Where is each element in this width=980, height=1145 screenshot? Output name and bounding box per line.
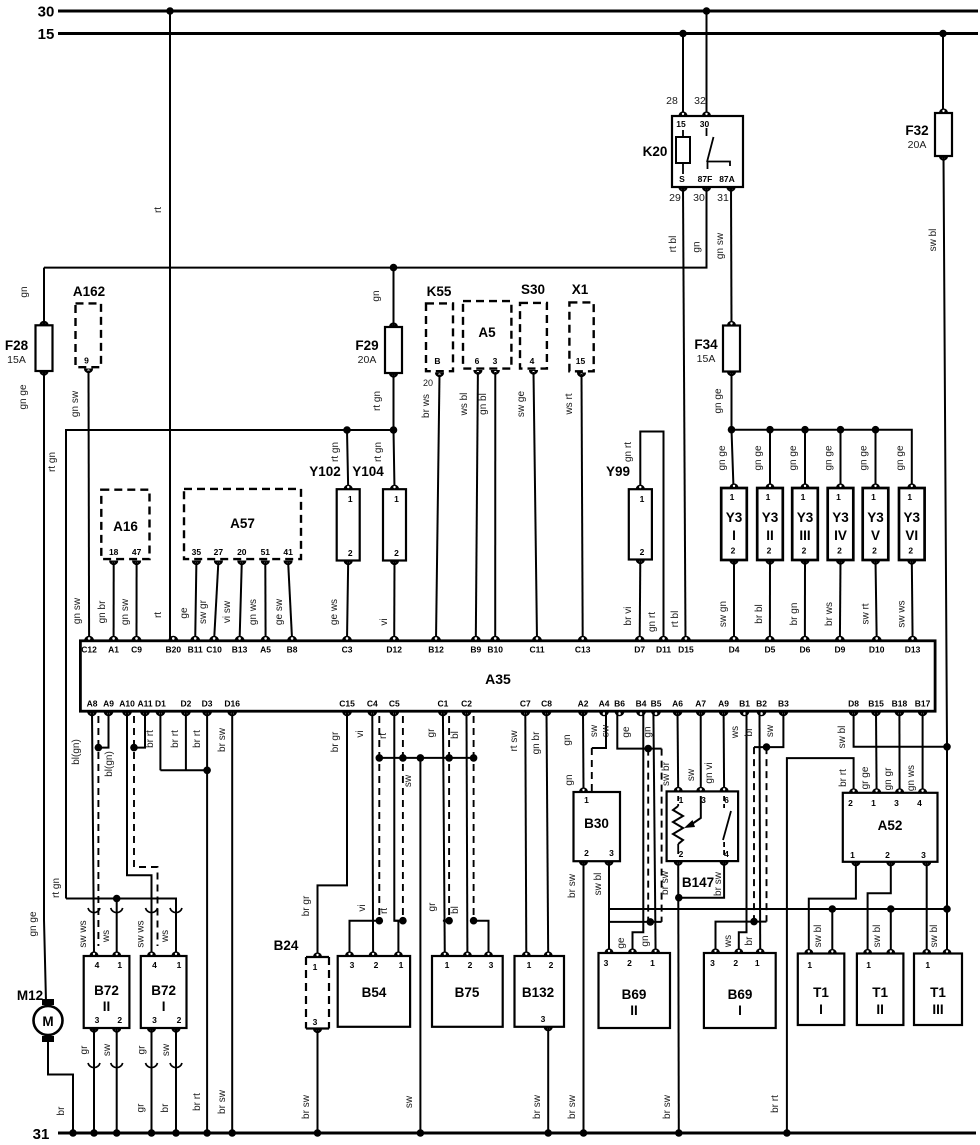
svg-text:D15: D15 bbox=[678, 644, 694, 654]
svg-text:ge: ge bbox=[621, 726, 632, 738]
sensor B69 II bbox=[599, 948, 671, 1028]
wire K20 pin32 to bus 30 bbox=[706, 11, 708, 114]
wire gn ge F34 down bbox=[732, 372, 734, 489]
svg-text:F28: F28 bbox=[5, 338, 29, 353]
svg-text:ws bl: ws bl bbox=[459, 393, 470, 417]
terminal C7 of A35 bbox=[520, 699, 531, 717]
sensor B69 I bbox=[704, 948, 776, 1028]
svg-text:1: 1 bbox=[801, 492, 806, 502]
svg-text:B13: B13 bbox=[232, 644, 248, 654]
wire A52 pin3 to T1 III bbox=[926, 862, 928, 954]
svg-text:vi: vi bbox=[379, 618, 390, 625]
svg-text:B72: B72 bbox=[94, 983, 119, 998]
svg-text:K55: K55 bbox=[427, 284, 452, 299]
junction gn ge / Y3 III bbox=[801, 426, 809, 434]
svg-text:sw bl: sw bl bbox=[872, 925, 883, 948]
svg-text:sw: sw bbox=[601, 724, 612, 737]
valve Y3 V bbox=[863, 483, 889, 564]
svg-text:C7: C7 bbox=[520, 699, 531, 709]
terminal D13 of A35 bbox=[905, 636, 921, 654]
wire gn sw K20 pin31 to F34 bbox=[730, 187, 733, 326]
junction bus31 / B72I pin3 bbox=[148, 1129, 156, 1137]
motor M12 bbox=[34, 999, 63, 1042]
valve Y3 IV bbox=[828, 483, 854, 564]
svg-text:1: 1 bbox=[584, 795, 589, 805]
terminal B9 of A35 bbox=[470, 636, 481, 654]
svg-text:20: 20 bbox=[423, 378, 433, 388]
svg-text:sw: sw bbox=[403, 774, 414, 787]
svg-text:B6: B6 bbox=[614, 699, 625, 709]
svg-text:4: 4 bbox=[152, 960, 157, 970]
wire dashed B69I b bbox=[766, 747, 768, 922]
svg-text:4: 4 bbox=[95, 960, 100, 970]
switch S30 bbox=[520, 303, 547, 375]
junction bus30 / rt wire bbox=[166, 7, 174, 15]
svg-text:gn: gn bbox=[692, 241, 703, 252]
wire br vi Y99 to D7 bbox=[639, 560, 642, 641]
svg-text:C8: C8 bbox=[541, 699, 552, 709]
svg-text:gn: gn bbox=[562, 734, 573, 745]
svg-text:gn: gn bbox=[564, 774, 575, 785]
wire ge ws Y102 to C3 bbox=[347, 561, 348, 641]
fuse F28 bbox=[5, 321, 53, 376]
svg-text:2: 2 bbox=[679, 849, 684, 859]
svg-text:rt gn: rt gn bbox=[51, 878, 62, 898]
wire B69I pin3 link bbox=[716, 922, 767, 953]
wire gn A2 to B30 bbox=[582, 711, 585, 789]
wire dashed B69II b bbox=[661, 749, 663, 922]
svg-text:III: III bbox=[799, 528, 810, 543]
wire sw B72II pin2 to bus31 bbox=[116, 1028, 118, 1133]
svg-text:bl: bl bbox=[450, 731, 461, 739]
terminal B2 of A35 bbox=[756, 699, 767, 717]
svg-text:A1: A1 bbox=[108, 644, 119, 654]
connector hook B72I pin2 lower bbox=[170, 1063, 182, 1068]
svg-text:A2: A2 bbox=[578, 699, 589, 709]
junction B147 pins 2+4 bbox=[675, 894, 683, 902]
wire F32 top bbox=[942, 34, 944, 114]
valve Y3 II bbox=[757, 483, 783, 564]
svg-text:Y3: Y3 bbox=[762, 510, 779, 525]
svg-text:15: 15 bbox=[38, 26, 55, 43]
junction B3 / dashed bbox=[763, 743, 771, 751]
valve Y102 bbox=[337, 485, 360, 565]
svg-text:C11: C11 bbox=[529, 644, 544, 654]
svg-text:gn rt: gn rt bbox=[647, 612, 658, 632]
svg-text:rt: rt bbox=[153, 207, 164, 213]
svg-text:D8: D8 bbox=[848, 699, 859, 709]
wire gn ge to Y3 IV bbox=[840, 430, 842, 488]
svg-text:F29: F29 bbox=[355, 338, 378, 353]
terminal D5 of A35 bbox=[764, 636, 775, 654]
svg-text:II: II bbox=[103, 999, 111, 1014]
svg-text:1: 1 bbox=[925, 960, 930, 970]
svg-text:gn ge: gn ge bbox=[788, 445, 799, 470]
valve Y99 bbox=[629, 485, 652, 564]
sensor B132 bbox=[515, 951, 565, 1031]
svg-text:2: 2 bbox=[117, 1015, 122, 1025]
svg-text:F34: F34 bbox=[694, 337, 718, 352]
wire sw bl to T1 I bbox=[831, 909, 833, 954]
junction sw bl bus / F32 column bbox=[943, 905, 951, 913]
wire B3 link bbox=[754, 711, 783, 747]
svg-text:3: 3 bbox=[609, 848, 614, 858]
svg-text:41: 41 bbox=[283, 547, 293, 557]
svg-text:27: 27 bbox=[214, 547, 224, 557]
svg-text:III: III bbox=[932, 1002, 943, 1017]
svg-text:30: 30 bbox=[38, 4, 55, 21]
terminal D16 of A35 bbox=[224, 699, 240, 717]
wire gr B72II pin3 to bus31 bbox=[93, 1028, 95, 1133]
wire F28 top bbox=[43, 268, 45, 326]
junction gn ge / Y3 IV bbox=[837, 426, 845, 434]
svg-text:ge: ge bbox=[179, 607, 190, 619]
svg-text:A162: A162 bbox=[73, 284, 105, 299]
svg-text:B54: B54 bbox=[362, 985, 387, 1000]
terminal B18 of A35 bbox=[892, 699, 908, 717]
junction bus15 / F32 bbox=[939, 30, 947, 38]
svg-text:1: 1 bbox=[399, 960, 404, 970]
svg-text:sw bl: sw bl bbox=[928, 229, 939, 252]
wire B75 pin3 link bbox=[474, 921, 489, 956]
svg-text:bl(gn): bl(gn) bbox=[104, 751, 115, 777]
svg-text:gn sw: gn sw bbox=[72, 597, 83, 624]
wire sw A4 link bbox=[592, 711, 606, 748]
terminal B11 of A35 bbox=[188, 636, 203, 654]
svg-text:1: 1 bbox=[807, 960, 812, 970]
junction bus15 / K20 pin28 bbox=[679, 30, 687, 38]
sensor B30 bbox=[574, 787, 621, 865]
ignition coil T1 II bbox=[857, 949, 904, 1025]
svg-text:gn br: gn br bbox=[97, 600, 108, 623]
svg-text:vi sw: vi sw bbox=[222, 600, 233, 623]
svg-text:gr: gr bbox=[426, 728, 437, 738]
wire sw rt Y3 V to D10 bbox=[876, 560, 877, 640]
svg-text:sw gr: sw gr bbox=[198, 599, 209, 624]
junction rt gn / B72II pin1 bbox=[113, 895, 121, 903]
svg-text:3: 3 bbox=[152, 1015, 157, 1025]
svg-text:47: 47 bbox=[132, 547, 142, 557]
svg-text:1: 1 bbox=[866, 960, 871, 970]
terminal C1 of A35 bbox=[437, 699, 448, 717]
bus 30 bbox=[58, 10, 978, 13]
svg-text:1: 1 bbox=[445, 960, 450, 970]
svg-text:T1: T1 bbox=[813, 985, 829, 1000]
svg-text:4: 4 bbox=[530, 356, 535, 366]
svg-text:gr ge: gr ge bbox=[860, 766, 871, 789]
svg-text:3: 3 bbox=[313, 1017, 318, 1027]
junction rt gn / Y102 bbox=[343, 426, 351, 434]
terminal A5 of A35 bbox=[260, 636, 271, 654]
svg-text:gn sw: gn sw bbox=[70, 390, 81, 417]
wire sw br A6 to B147 pin1 bbox=[677, 711, 680, 791]
svg-text:18: 18 bbox=[109, 547, 119, 557]
svg-text:1: 1 bbox=[650, 958, 655, 968]
svg-text:28: 28 bbox=[666, 95, 678, 107]
terminal D8 of A35 bbox=[848, 699, 859, 717]
svg-text:3: 3 bbox=[95, 1015, 100, 1025]
svg-text:II: II bbox=[876, 1002, 884, 1017]
junction B75 pin1 / dashed bbox=[445, 917, 453, 925]
svg-text:20: 20 bbox=[237, 547, 247, 557]
svg-text:1: 1 bbox=[117, 960, 122, 970]
svg-text:B11: B11 bbox=[188, 644, 203, 654]
wire gn rt Y99 loop to D11 bbox=[640, 432, 663, 641]
fuse F29 bbox=[355, 322, 402, 377]
svg-text:gn ge: gn ge bbox=[713, 388, 724, 413]
wire br sw B132 to bus31 bbox=[547, 1027, 549, 1133]
svg-text:gr: gr bbox=[137, 1045, 148, 1055]
svg-text:S: S bbox=[679, 174, 685, 184]
svg-text:Y3: Y3 bbox=[904, 510, 921, 525]
svg-text:1: 1 bbox=[679, 795, 684, 805]
svg-text:br: br bbox=[744, 936, 755, 946]
svg-text:1: 1 bbox=[177, 960, 182, 970]
wire bl C2 to B75 pin2 bbox=[466, 711, 469, 956]
terminal A6 of A35 bbox=[672, 699, 683, 717]
svg-text:B30: B30 bbox=[584, 816, 609, 831]
svg-text:sw ge: sw ge bbox=[516, 391, 527, 418]
wire br rt D2 bbox=[185, 711, 187, 770]
wire dashed A11 companion bbox=[134, 716, 158, 946]
wire A57 pin 51 bbox=[264, 562, 266, 641]
connector hook B72I pin3 lower bbox=[146, 1063, 158, 1068]
connector hook B72I pin4 bbox=[146, 908, 158, 913]
svg-text:D5: D5 bbox=[764, 644, 775, 654]
wire rt gn to Y102 bbox=[347, 430, 348, 489]
svg-text:1: 1 bbox=[730, 492, 735, 502]
svg-text:1: 1 bbox=[836, 492, 841, 502]
svg-text:C1: C1 bbox=[437, 699, 448, 709]
wire ws B1 to B69I pin2 bbox=[739, 711, 747, 953]
svg-text:2: 2 bbox=[731, 546, 736, 556]
svg-text:A10: A10 bbox=[119, 699, 135, 709]
junction sw link d1 bbox=[376, 754, 384, 762]
svg-text:br ws: br ws bbox=[421, 394, 432, 418]
wire sw ge S30 to C11 bbox=[534, 372, 538, 640]
junction sw link d3 bbox=[445, 754, 453, 762]
wire bl(gn) A8 to B72II pin4 bbox=[92, 711, 94, 953]
svg-text:Y3: Y3 bbox=[867, 510, 884, 525]
wire sw bl F32 down bbox=[944, 156, 948, 908]
svg-text:bl(gn): bl(gn) bbox=[71, 739, 82, 765]
svg-text:sw: sw bbox=[161, 1043, 172, 1056]
wire dashed B69II a bbox=[647, 749, 649, 922]
terminal D9 of A35 bbox=[834, 636, 845, 654]
wire dashed C4 companion bbox=[378, 716, 380, 921]
wire br ws Y3 IV to D9 bbox=[839, 560, 842, 640]
junction bus31 / sw bbox=[417, 1129, 425, 1137]
svg-text:9: 9 bbox=[84, 356, 89, 366]
svg-text:br sw: br sw bbox=[660, 870, 671, 895]
svg-text:bl: bl bbox=[450, 906, 461, 914]
svg-text:1: 1 bbox=[640, 494, 645, 504]
svg-text:20A: 20A bbox=[358, 354, 377, 366]
wire br rt D1-D3 link bbox=[160, 769, 207, 771]
wire gn vi A9 to B147 pin6 bbox=[723, 711, 726, 791]
wire rt C5 to B54 pin1 bbox=[394, 711, 398, 956]
svg-text:2: 2 bbox=[908, 546, 913, 556]
wire B54 pin3 link bbox=[350, 921, 380, 956]
valve Y3 VI bbox=[899, 483, 925, 564]
wire rt sw C7 to B132 pin1 bbox=[525, 711, 526, 956]
svg-text:M: M bbox=[42, 1014, 53, 1029]
svg-text:3: 3 bbox=[894, 798, 899, 808]
terminal C2 of A35 bbox=[461, 699, 472, 717]
svg-text:sw bl: sw bl bbox=[593, 873, 604, 896]
wire gn sw A162 to C12 bbox=[88, 371, 91, 641]
fuse F34 bbox=[694, 321, 740, 376]
junction sw bl bus / T1 I bbox=[829, 905, 837, 913]
svg-text:gn ge: gn ge bbox=[753, 445, 764, 470]
connector hook B72II pin4 bbox=[88, 908, 100, 913]
svg-text:A5: A5 bbox=[478, 325, 496, 340]
wire B6 link bbox=[617, 711, 661, 748]
svg-text:2: 2 bbox=[733, 958, 738, 968]
svg-text:B132: B132 bbox=[522, 985, 554, 1000]
wire sw A7 to B147 pin3 bbox=[700, 711, 702, 791]
svg-text:M12: M12 bbox=[17, 988, 43, 1003]
svg-text:1: 1 bbox=[871, 492, 876, 502]
svg-text:sw gn: sw gn bbox=[718, 601, 729, 627]
svg-text:D12: D12 bbox=[386, 644, 402, 654]
svg-text:D7: D7 bbox=[634, 644, 645, 654]
svg-text:I: I bbox=[819, 1002, 823, 1017]
svg-text:3: 3 bbox=[350, 960, 355, 970]
svg-text:gr: gr bbox=[136, 1103, 147, 1113]
wire B54 pin1 stub bbox=[394, 920, 403, 922]
svg-text:rt sw: rt sw bbox=[509, 730, 520, 752]
terminal D7 of A35 bbox=[634, 636, 645, 654]
terminal C3 of A35 bbox=[342, 636, 353, 654]
wire br sw B30 pin2 to bus31 bbox=[583, 861, 585, 1133]
svg-text:rt: rt bbox=[153, 612, 164, 618]
junction bus30 / K20 pin32 bbox=[703, 7, 711, 15]
svg-text:B24: B24 bbox=[274, 938, 299, 953]
svg-text:rt bl: rt bl bbox=[668, 236, 679, 253]
terminal A8 of A35 bbox=[87, 699, 98, 717]
svg-text:A57: A57 bbox=[230, 516, 255, 531]
svg-text:B2: B2 bbox=[756, 699, 767, 709]
wire gn ge to Y3 II bbox=[769, 430, 771, 488]
svg-text:Y3: Y3 bbox=[797, 510, 814, 525]
wire vi Y104 to D12 bbox=[393, 561, 395, 641]
junction D8 / F32 column bbox=[943, 743, 951, 751]
svg-text:gn gr: gn gr bbox=[883, 767, 894, 790]
svg-text:br: br bbox=[56, 1106, 67, 1116]
sensor B147 bbox=[667, 787, 739, 866]
svg-text:29: 29 bbox=[669, 192, 681, 204]
svg-text:A9: A9 bbox=[718, 699, 729, 709]
wire rt from bus 30 to B20 bbox=[169, 11, 171, 640]
svg-text:31: 31 bbox=[33, 1126, 50, 1143]
valve Y3 I bbox=[721, 483, 747, 564]
svg-text:20A: 20A bbox=[908, 139, 927, 151]
svg-text:S30: S30 bbox=[521, 282, 545, 297]
junction sw link d4 bbox=[470, 754, 478, 762]
junction bus31 / B30 bbox=[580, 1129, 588, 1137]
svg-text:B1: B1 bbox=[739, 699, 750, 709]
svg-text:2: 2 bbox=[885, 850, 890, 860]
terminal C5 of A35 bbox=[389, 699, 400, 717]
svg-text:ws: ws bbox=[730, 726, 741, 739]
svg-text:vi: vi bbox=[355, 730, 366, 737]
svg-text:br rt: br rt bbox=[170, 730, 181, 748]
wire ws bl A5 to B9 bbox=[476, 372, 478, 640]
svg-text:rt bl: rt bl bbox=[670, 611, 681, 628]
svg-text:br sw: br sw bbox=[217, 727, 228, 752]
terminal A4 of A35 bbox=[599, 699, 610, 717]
svg-text:gn ge: gn ge bbox=[18, 384, 29, 409]
wire A52 pin1 to T1 I bbox=[809, 862, 856, 954]
terminal C15 of A35 bbox=[339, 699, 355, 717]
terminal A9 of A35 bbox=[103, 699, 114, 717]
wire dashed C1 companion bbox=[448, 716, 450, 921]
svg-text:3: 3 bbox=[701, 795, 706, 805]
svg-text:II: II bbox=[766, 528, 774, 543]
wire gn bl A5 to B10 bbox=[494, 372, 496, 640]
svg-text:gn ws: gn ws bbox=[906, 765, 917, 791]
svg-text:D6: D6 bbox=[799, 644, 810, 654]
sensor B72 I bbox=[141, 951, 187, 1032]
svg-text:I: I bbox=[162, 999, 166, 1014]
svg-text:B: B bbox=[434, 356, 440, 366]
junction A9 / dashed bbox=[95, 744, 103, 752]
svg-text:4: 4 bbox=[917, 798, 922, 808]
svg-text:C10: C10 bbox=[206, 644, 222, 654]
svg-text:br sw: br sw bbox=[662, 1094, 673, 1119]
svg-text:A16: A16 bbox=[113, 519, 138, 534]
svg-text:D4: D4 bbox=[729, 644, 740, 654]
svg-text:sw ws: sw ws bbox=[78, 920, 89, 947]
fuse F32 bbox=[905, 108, 952, 160]
wire rt gn F29 down bbox=[394, 373, 395, 489]
svg-text:A35: A35 bbox=[485, 671, 511, 687]
wire gr C1 to B75 pin1 bbox=[443, 711, 445, 956]
connector hook B72II pin1 bbox=[111, 908, 123, 913]
junction B75 pin3 / dashed bbox=[470, 917, 478, 925]
svg-text:gn ge: gn ge bbox=[859, 445, 870, 470]
junction bus31 / B72I pin2 bbox=[172, 1129, 180, 1137]
svg-text:I: I bbox=[738, 1003, 742, 1018]
wire br gn Y3 III to D6 bbox=[804, 560, 806, 640]
junction bus31 / br rt A52 bbox=[783, 1129, 791, 1137]
terminal B10 of A35 bbox=[487, 636, 503, 654]
svg-text:87A: 87A bbox=[719, 174, 735, 184]
svg-text:gr: gr bbox=[427, 902, 438, 912]
wire gn K20 pin30 down bbox=[44, 187, 707, 268]
svg-text:ws: ws bbox=[723, 935, 734, 948]
junction bus31 / M12 bbox=[69, 1129, 77, 1137]
svg-text:B15: B15 bbox=[868, 699, 884, 709]
svg-text:br: br bbox=[160, 1103, 171, 1113]
junction gn ge / Y3 II bbox=[766, 426, 774, 434]
svg-text:C2: C2 bbox=[461, 699, 472, 709]
svg-text:B10: B10 bbox=[487, 644, 503, 654]
junction B69II link / dashed bbox=[647, 918, 655, 926]
svg-text:I: I bbox=[732, 528, 736, 543]
svg-text:3: 3 bbox=[921, 850, 926, 860]
svg-text:1: 1 bbox=[394, 494, 399, 504]
svg-text:1: 1 bbox=[527, 960, 532, 970]
wire sw bl B30 pin3 down bbox=[608, 861, 610, 953]
terminal B1 of A35 bbox=[739, 699, 750, 717]
connector hook B72I pin1 bbox=[170, 908, 182, 913]
wire dashed A8 companion bbox=[97, 716, 99, 946]
svg-text:gn ge: gn ge bbox=[824, 445, 835, 470]
wire A9 link bbox=[98, 711, 108, 747]
terminal B17 of A35 bbox=[915, 699, 931, 717]
